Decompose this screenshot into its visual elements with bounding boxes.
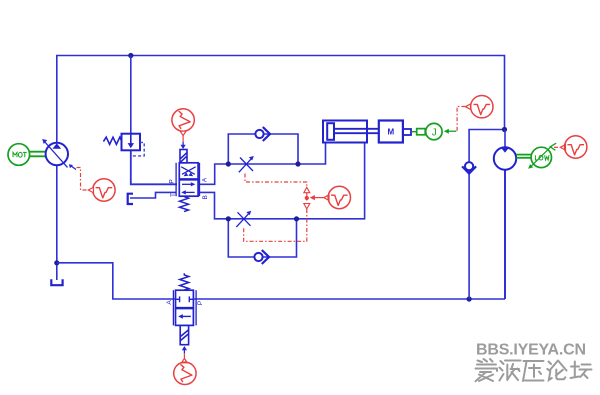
node J8 [294,216,299,221]
DV2 closed marks [175,296,193,302]
DV1 parallel arrows [181,182,195,194]
wire top rail [57,56,505,144]
node J6 [295,161,300,166]
mass rod stub [403,129,411,135]
gauge G2 [172,109,194,131]
DV1 crossed arrows [181,167,195,176]
cylinder CYL1 [323,121,379,143]
mass block M [379,121,403,143]
check valve CV2 [254,250,269,264]
check valve CV1 [255,127,270,141]
DV2 solenoid [180,326,188,345]
signal node N1 [305,196,309,200]
wire T port to tank [130,192,176,198]
tank T1 [51,279,62,285]
pump P1 control arrow [69,164,76,169]
DV1 solenoid [180,150,187,163]
signal arrow down [304,204,310,209]
svg-text:M: M [387,128,394,137]
pump P1 variable [42,139,68,167]
wire top check loop [228,134,298,164]
throttle TH1 [239,156,254,172]
link to load sensor [411,131,416,133]
wire left suction drop [56,166,58,281]
gauge G2 probe [180,131,186,135]
wire relief drop [130,56,132,134]
gauge G6 [174,362,196,384]
node J4 [128,53,133,58]
pump P2 [494,147,516,169]
svg-text:B: B [202,195,209,199]
gauge G5 link [550,143,558,150]
load port box [417,129,426,135]
svg-text:T: T [170,193,177,197]
check valve CV3 [462,162,476,174]
gauge G4 probe [466,104,471,110]
throttle TH2 [236,211,251,227]
gauge G1 [93,179,115,201]
node J3 [502,127,507,132]
gauge G6 probe [182,358,188,362]
svg-text:A: A [166,300,173,305]
wire A port branch [200,143,326,185]
node J7 [226,216,231,221]
motor MOT [8,144,30,166]
signal wire G4 [457,107,465,132]
wire bottom check loop [228,219,296,257]
solenoid input arrow DV2 [182,346,187,353]
shaft MOT-pump [30,152,46,157]
tank T2 [128,194,133,204]
solenoid input arrow DV1 [181,142,186,149]
signal arrow up [304,187,310,192]
gauge G5 probe [560,145,565,151]
signal wire pump control [77,168,89,191]
svg-text:A: A [202,177,209,182]
motor LOW [528,146,551,169]
signal wire G2 [182,136,184,142]
watermark CJK 爱液压论坛 [476,359,592,381]
relief valve RV1 spring [103,137,121,144]
svg-text:P: P [169,179,176,183]
DV2 spring [180,273,189,290]
inertia J [426,123,442,139]
svg-text:P: P [197,301,204,305]
wire B port branch [200,143,365,219]
gauge G3 [328,186,350,208]
wire bottom rail right [194,298,505,300]
gauge G5 [565,136,587,158]
valve DV2 rails [173,290,196,325]
gauge G1 probe [88,187,93,193]
relief valve RV1 pilot line [131,142,144,156]
svg-text:J: J [432,127,437,138]
node J5 [226,161,231,166]
node J2 [467,296,472,301]
gauge G4 [471,96,493,118]
gauge G3 wire [310,195,324,200]
relief valve RV1 [122,134,141,151]
shaft P2-LOW [516,155,531,158]
wire pump2 suction [504,170,506,300]
svg-text:BBS.IYEYA.CN: BBS.IYEYA.CN [476,342,586,359]
wire bypass check branch [469,130,504,300]
node J1 [54,260,59,265]
signal arrow into J [444,129,457,134]
DV2 arrow [178,314,191,319]
directional valve DV1 [176,163,199,196]
wire pump2 top [504,130,506,148]
gauge G3 probe [324,195,329,201]
wire return to bottom rail [57,263,175,299]
signal wire G6 [183,353,185,358]
signal net throttle control [244,174,307,242]
DV1 spring [180,197,189,212]
wire relief to P port [131,150,177,184]
